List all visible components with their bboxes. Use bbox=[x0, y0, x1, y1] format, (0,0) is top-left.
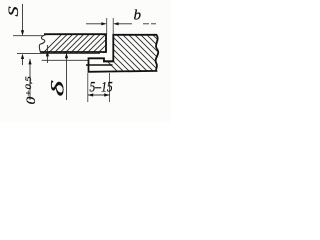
svg-text:δ: δ bbox=[47, 80, 67, 96]
svg-text:0+0,5: 0+0,5 bbox=[24, 76, 39, 104]
svg-text:b: b bbox=[134, 8, 142, 24]
svg-text:5–15: 5–15 bbox=[90, 78, 114, 95]
svg-text:S: S bbox=[5, 6, 22, 16]
